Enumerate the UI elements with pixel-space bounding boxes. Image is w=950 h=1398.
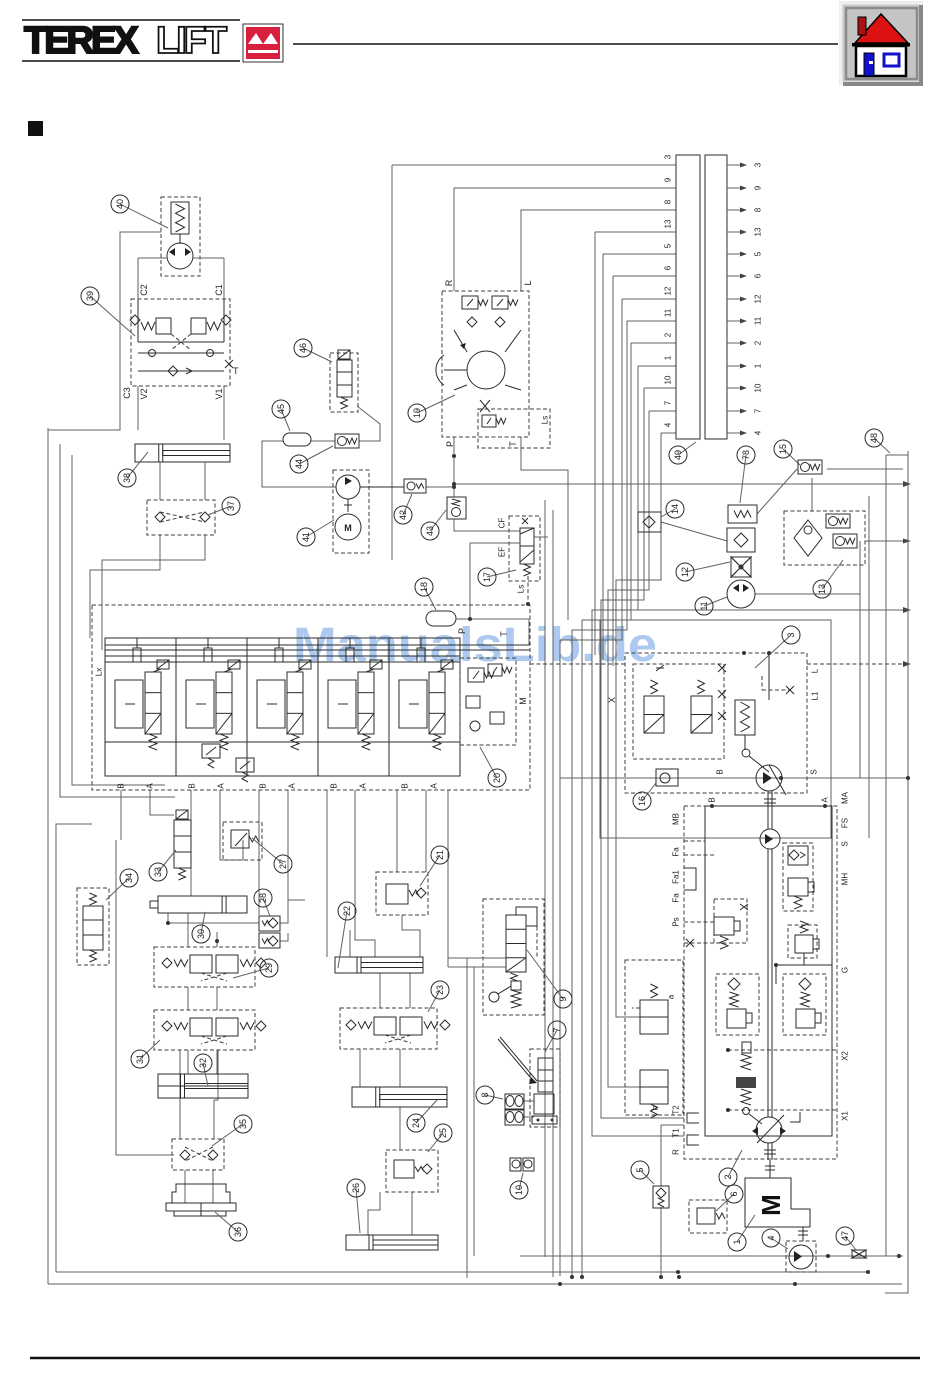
circle 46 (303, 348, 332, 362)
valve 15 body (798, 460, 822, 474)
svg-text:21: 21 (435, 850, 445, 860)
filter 13 dashed (784, 511, 865, 565)
circle 41 (306, 520, 334, 537)
17 Ls dashed (527, 576, 529, 604)
svg-text:S: S (841, 841, 850, 846)
check valve 44 (335, 434, 359, 448)
circle 42 (403, 494, 412, 515)
svg-text:4: 4 (664, 422, 673, 427)
19 X symbol (480, 400, 490, 412)
svg-text:10: 10 (754, 383, 763, 392)
circle 5 (640, 1170, 654, 1184)
wire solid right block (600, 620, 831, 838)
2 a b valves (625, 960, 683, 1115)
2 charge pump circle (760, 829, 780, 849)
svg-text:3: 3 (664, 154, 673, 159)
shutoff 47 (852, 1250, 866, 1258)
svg-text:C3: C3 (122, 387, 132, 399)
circle 48 (874, 438, 890, 453)
wire pin1 (638, 365, 676, 367)
19 steering wheel (444, 369, 467, 371)
svg-text:17: 17 (482, 572, 492, 582)
circle 19 (417, 395, 455, 413)
svg-text:5: 5 (635, 1167, 645, 1172)
stabilizer cylinder 36 (172, 1184, 230, 1203)
svg-text:P: P (445, 441, 455, 447)
svg-text:1: 1 (754, 363, 763, 368)
travel pump 2 dashed box (684, 806, 837, 1159)
svg-text:C1: C1 (214, 284, 224, 296)
wire pump3 junction (767, 651, 771, 655)
svg-text:2: 2 (754, 340, 763, 345)
svg-text:LIFT: LIFT (156, 20, 227, 62)
svg-text:L: L (811, 668, 820, 673)
valve 25 dashed (386, 1150, 438, 1192)
circle 13 (822, 560, 843, 589)
39 pilot cross (171, 334, 191, 350)
svg-text:B: B (259, 783, 268, 788)
39 left valve (156, 318, 171, 334)
section bullet (28, 121, 43, 136)
counterbalance 31 dashed (154, 1010, 255, 1050)
svg-text:Fa1: Fa1 (672, 870, 681, 884)
wire pump supply (426, 486, 454, 488)
wire pin9 (454, 188, 676, 291)
svg-text:7: 7 (664, 400, 673, 405)
circle 7 (545, 1030, 557, 1052)
svg-text:11: 11 (699, 601, 709, 610)
46 solenoid (338, 350, 350, 359)
circle 10 (519, 1173, 523, 1190)
19 Ls sub box (478, 409, 550, 448)
3 L1 dashed stub (761, 676, 763, 690)
wire bank downs col3 (258, 790, 260, 915)
circle 11 (704, 597, 727, 606)
svg-text:32: 32 (198, 1058, 208, 1068)
svg-text:7: 7 (754, 408, 763, 413)
wire pin10 (644, 387, 676, 389)
logo TEREXLIFT (22, 20, 240, 62)
accumulator 18 (426, 611, 456, 626)
circle 22 (338, 911, 347, 968)
svg-text:22: 22 (342, 906, 352, 916)
circle 36 (215, 1212, 238, 1232)
cylinder 22 (335, 957, 423, 973)
circle 15 (783, 449, 800, 465)
wire 35 to cylinder36 (184, 1170, 186, 1203)
solenoid valve 46 dashed (330, 353, 358, 412)
cylinder 38 (135, 444, 230, 462)
motor pump unit 41 dashed (333, 470, 369, 553)
wire 43 to CF (454, 519, 520, 531)
circle 39 (90, 296, 135, 336)
circle 25 (428, 1133, 443, 1152)
wire brake left verticals (466, 958, 468, 1278)
svg-text:41: 41 (301, 532, 311, 542)
wire right horiz 541 (661, 522, 727, 541)
2 main pump circle (756, 1117, 782, 1143)
svg-text:V2: V2 (139, 388, 149, 399)
svg-text:7: 7 (552, 1027, 562, 1032)
cylinder 32 (158, 1074, 248, 1098)
wire left 56 vertical (56, 824, 92, 1272)
svg-text:A: A (288, 783, 297, 789)
hand pump rotor (167, 243, 193, 269)
svg-text:M: M (518, 697, 528, 705)
bank end section M (460, 658, 516, 745)
39 left diamond (130, 315, 140, 325)
2 left relief dashed (714, 899, 747, 943)
svg-text:43: 43 (425, 526, 435, 536)
41 pump circle (336, 475, 360, 499)
connector block right bar (705, 155, 727, 439)
3 servo actuator (735, 700, 755, 735)
wire 41-42 (360, 486, 404, 488)
svg-text:2: 2 (723, 1174, 733, 1179)
17 EF wire (470, 543, 520, 619)
wire 23 down to 24 25 26 (359, 1049, 361, 1087)
check pair 28 (259, 916, 280, 931)
2 main shaft down (767, 849, 769, 1117)
svg-text:2: 2 (664, 332, 673, 337)
gear pump 4 dashed (786, 1241, 816, 1272)
wire pin6 (613, 275, 676, 277)
solenoid valve 33 (174, 820, 191, 868)
19 diamonds (467, 317, 477, 327)
39 right valve (191, 318, 206, 334)
circle 34 (106, 878, 129, 900)
svg-text:T2: T2 (672, 1105, 681, 1115)
circle 2 (728, 1150, 742, 1177)
svg-text:CF: CF (498, 518, 507, 529)
svg-text:B: B (401, 783, 410, 788)
svg-text:11: 11 (754, 316, 763, 325)
svg-text:33: 33 (153, 867, 163, 877)
brake valve 7 dashed (530, 1049, 560, 1127)
svg-text:6: 6 (664, 265, 673, 270)
7 valve body (538, 1058, 553, 1092)
2 port staples (687, 1113, 699, 1123)
wire 448 riser (447, 790, 449, 967)
cooler 12 fan (731, 557, 751, 567)
bank aux reducer 2 (236, 758, 254, 772)
bank section 1 (175, 638, 177, 776)
2 servo stack (742, 1042, 751, 1053)
wire bottom long 1256 (520, 1255, 903, 1257)
19 relief right (492, 296, 508, 309)
bank section 4 (388, 638, 390, 776)
bank internal rails (105, 644, 530, 646)
valve bank body (105, 638, 460, 776)
wire 31 down to 35 (179, 1050, 181, 1139)
2 left edge stubs (684, 840, 705, 842)
svg-text:V1: V1 (214, 388, 224, 399)
svg-text:TEREX: TEREX (24, 20, 139, 62)
wire 37 down (90, 535, 160, 638)
circle 29 (233, 968, 269, 978)
wire 18 line (456, 618, 529, 620)
svg-text:B: B (708, 797, 717, 802)
circle 47 (845, 1236, 856, 1250)
bank aux reducer 1 (202, 744, 220, 758)
svg-text:25: 25 (438, 1128, 448, 1138)
svg-text:L: L (523, 280, 533, 285)
svg-text:M: M (344, 523, 352, 533)
gear pump 42 (404, 479, 426, 493)
9 valve (506, 915, 526, 972)
counterbalance 23 dashed (340, 1008, 437, 1049)
steering unit 19 dashed box (442, 291, 529, 437)
valve 14 (638, 512, 661, 532)
svg-text:M: M (756, 1194, 786, 1216)
svg-text:B: B (188, 783, 197, 788)
svg-text:R: R (444, 279, 454, 286)
svg-text:5: 5 (664, 243, 673, 248)
41 shaft (347, 499, 349, 512)
svg-text:T: T (233, 366, 239, 376)
svg-text:A: A (430, 783, 439, 789)
circle 6 (716, 1194, 734, 1211)
svg-text:T1: T1 (672, 1128, 681, 1138)
2 shaft (767, 791, 769, 829)
check 5 (653, 1186, 669, 1208)
svg-text:3: 3 (754, 162, 763, 167)
19 links (454, 330, 467, 352)
circle 32 (203, 1063, 208, 1086)
check block 37 dashed (147, 500, 215, 535)
circle 31 (140, 1040, 160, 1059)
2 right mid relief dashed (788, 925, 817, 958)
priority valve 17 (509, 516, 540, 581)
svg-text:Fa: Fa (672, 847, 681, 857)
svg-text:10: 10 (514, 1185, 524, 1195)
39 T port (225, 360, 233, 368)
svg-text:T: T (499, 631, 509, 637)
svg-text:24: 24 (411, 1118, 421, 1128)
46 valve body (337, 360, 352, 397)
svg-text:13: 13 (664, 219, 673, 228)
bank section 2 (246, 638, 248, 776)
svg-text:Fa: Fa (672, 893, 681, 903)
svg-text:10: 10 (664, 375, 673, 384)
wire main pressure 778 (560, 777, 908, 779)
circle 8 (485, 1095, 503, 1099)
svg-text:40: 40 (115, 199, 125, 209)
svg-text:9: 9 (558, 996, 568, 1001)
wire 21-22 (402, 915, 420, 957)
pump group 3 dashed box (625, 653, 807, 793)
39 right spring (207, 322, 221, 330)
svg-text:78: 78 (741, 450, 751, 460)
svg-text:46: 46 (298, 343, 308, 353)
3 prop valve left (644, 696, 664, 733)
circle 18 (424, 587, 436, 610)
19 relief left (462, 296, 478, 309)
svg-text:35: 35 (238, 1119, 248, 1129)
cylinder 30 (158, 896, 247, 913)
circle 49 (678, 442, 696, 455)
wire bank downs col4 (396, 790, 398, 872)
svg-text:14: 14 (670, 504, 680, 514)
17 CF out right (534, 536, 548, 538)
svg-text:8: 8 (480, 1092, 490, 1097)
svg-text:T: T (508, 441, 518, 447)
wire bank downs col2 (190, 790, 192, 896)
wire 29-31 connect (187, 987, 189, 1010)
wire steering T (521, 437, 568, 620)
svg-text:S: S (810, 769, 819, 774)
1 shaft top (769, 1160, 771, 1178)
wire bundle middle (544, 500, 546, 1257)
filter 43 (447, 497, 466, 519)
wire pump4 (520, 1255, 789, 1257)
svg-text:C2: C2 (139, 284, 149, 296)
7 pedal lever (498, 1039, 535, 1083)
svg-text:3: 3 (786, 632, 796, 637)
2 top junction dots (710, 804, 714, 808)
svg-text:19: 19 (412, 408, 422, 418)
svg-text:11: 11 (664, 308, 673, 317)
circle 38 (127, 452, 148, 478)
svg-text:18: 18 (419, 582, 429, 592)
wire right verticals (886, 454, 908, 456)
svg-text:Lx: Lx (95, 668, 104, 676)
svg-text:30: 30 (196, 929, 206, 939)
circle 27 (252, 838, 283, 864)
wire pin7 (649, 410, 676, 412)
svg-text:8: 8 (664, 199, 673, 204)
1 shaft bottom (802, 1227, 804, 1241)
svg-text:29: 29 (264, 963, 274, 973)
svg-text:FS: FS (841, 818, 850, 828)
svg-text:8: 8 (754, 207, 763, 212)
9 left ports (448, 957, 506, 959)
wire right dashed L line (530, 663, 625, 665)
svg-text:42: 42 (398, 510, 408, 520)
wire right horiz 610 (755, 593, 860, 595)
counterbalance 29 dashed (154, 947, 255, 987)
bank section 5 (417, 648, 425, 662)
cooler 12 check (727, 528, 755, 552)
2 bracket (790, 1112, 800, 1122)
circle 40 (120, 204, 168, 228)
wire pin11 (627, 320, 676, 322)
svg-text:X1: X1 (841, 1111, 850, 1121)
circle 24 (416, 1100, 437, 1123)
svg-text:4: 4 (754, 430, 763, 435)
svg-text:G: G (841, 967, 850, 973)
svg-text:X: X (607, 697, 617, 703)
svg-text:4: 4 (766, 1235, 776, 1240)
svg-text:5: 5 (754, 251, 763, 256)
wire handpump sides (138, 257, 167, 259)
circle 37 (208, 506, 231, 515)
svg-text:Ls: Ls (517, 585, 526, 593)
circle 26 (356, 1188, 360, 1233)
svg-text:20: 20 (492, 773, 502, 783)
3 X symbols (656, 665, 664, 671)
svg-text:1: 1 (664, 355, 673, 360)
39 right diamond (221, 315, 231, 325)
wire 38 to 37 (159, 462, 161, 500)
svg-text:X2: X2 (841, 1051, 850, 1061)
svg-text:A: A (146, 783, 155, 789)
svg-text:26: 26 (351, 1183, 361, 1193)
svg-text:MH: MH (841, 873, 850, 886)
svg-text:B: B (330, 783, 339, 788)
wire pin3 (392, 164, 676, 166)
svg-text:39: 39 (85, 291, 95, 301)
header rule (293, 43, 838, 45)
wire right top lines (454, 483, 903, 485)
svg-text:28: 28 (258, 893, 268, 903)
bank section 3 (317, 638, 319, 776)
stack valve 34 dashed (77, 888, 109, 965)
circle 28 (263, 898, 270, 916)
home icon button (840, 2, 923, 86)
valve bank outer dashed (92, 605, 530, 790)
2 MH group dashed (783, 843, 813, 911)
circle 4 (771, 1238, 788, 1249)
svg-text:12: 12 (754, 294, 763, 303)
relief 21 dashed (376, 872, 428, 915)
svg-text:49: 49 (673, 450, 683, 460)
wire pin2 (631, 342, 676, 344)
svg-text:6: 6 (729, 1191, 739, 1196)
svg-text:1: 1 (732, 1239, 742, 1244)
3 prop valve right (691, 696, 712, 733)
engine block 1 M (745, 1178, 810, 1227)
circle 12 (685, 562, 730, 572)
svg-text:38: 38 (122, 473, 132, 483)
svg-text:23: 23 (435, 985, 445, 995)
svg-text:MA: MA (841, 791, 850, 804)
svg-text:EF: EF (498, 547, 507, 557)
wire bottom long 1272 (56, 1271, 868, 1273)
svg-text:A: A (217, 783, 226, 789)
svg-text:12: 12 (680, 567, 690, 577)
8 boxes (505, 1094, 524, 1109)
svg-text:31: 31 (135, 1054, 145, 1064)
svg-text:b: b (651, 1105, 660, 1110)
wire trunk left verticals (47, 428, 49, 1284)
svg-text:Ps: Ps (672, 917, 681, 926)
10 boxes upper (510, 1158, 521, 1171)
brake accumulator charge 9 dashed (483, 899, 544, 1015)
circle 16 (642, 783, 656, 801)
footer rule (30, 1357, 920, 1360)
circle 78 (740, 455, 746, 503)
valve 16 box (656, 769, 678, 786)
svg-text:9: 9 (664, 177, 673, 182)
46 spring (341, 397, 348, 409)
hand pump 40 spring cartridge (171, 202, 189, 234)
wire bottom 1284 (48, 1283, 902, 1285)
svg-text:a: a (667, 994, 676, 999)
2 lower relief right dashed (783, 974, 826, 1035)
svg-text:P: P (457, 628, 467, 634)
svg-text:27: 27 (278, 859, 288, 869)
2 inner solid housing (705, 806, 832, 1136)
svg-text:A: A (821, 797, 830, 803)
circle 23 (428, 990, 440, 1012)
2 lower relief left dashed (716, 974, 759, 1035)
svg-text:13: 13 (754, 227, 763, 236)
svg-text:36: 36 (233, 1227, 243, 1237)
connector block left bar (676, 155, 700, 439)
svg-text:6: 6 (754, 273, 763, 278)
svg-text:9: 9 (754, 185, 763, 190)
